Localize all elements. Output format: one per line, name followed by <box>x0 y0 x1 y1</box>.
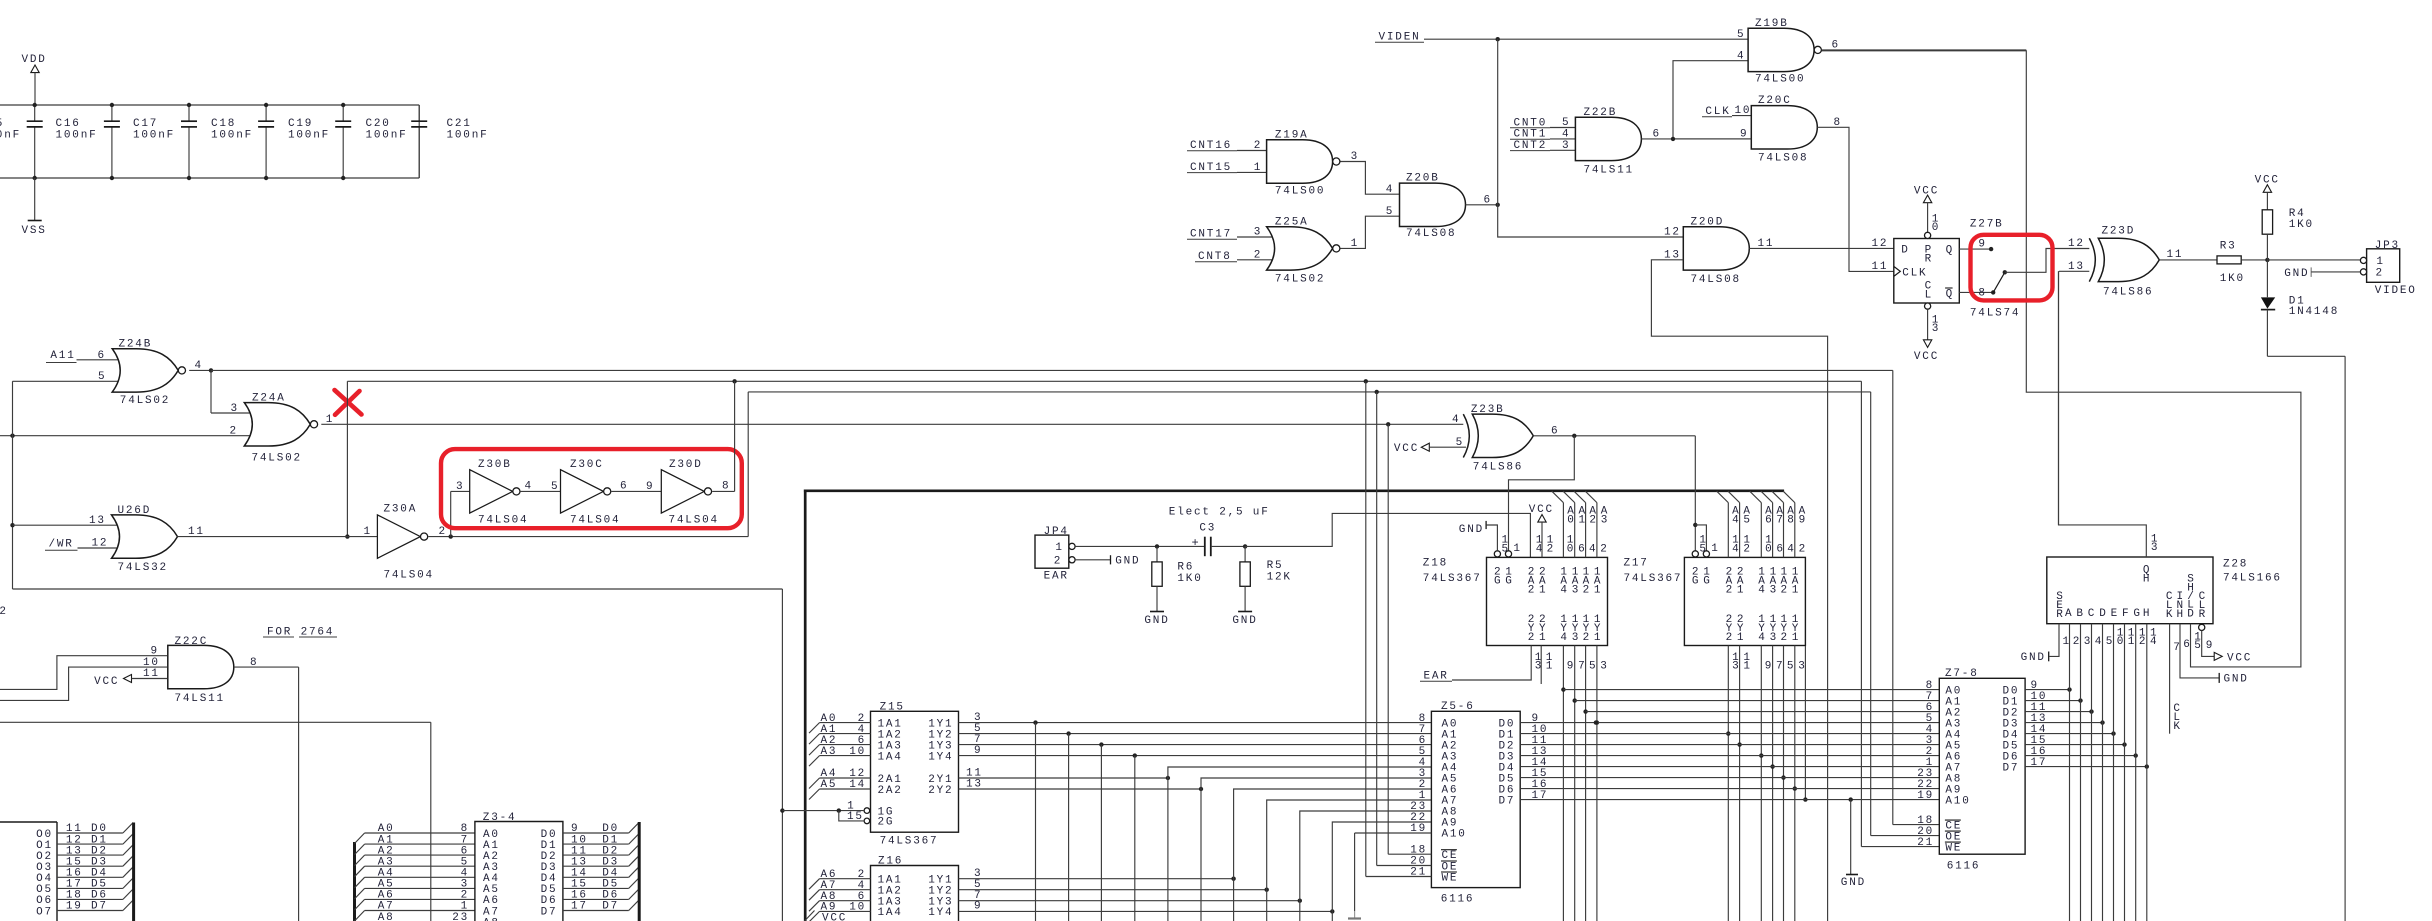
pin A7 left of Z3-4 <box>355 901 475 921</box>
svg-text:11: 11 <box>188 526 205 538</box>
svg-text:1: 1 <box>1539 632 1547 644</box>
svg-text:D: D <box>1901 244 1909 256</box>
wire A10 Z5-6 with ground <box>1355 833 1432 911</box>
svg-text:2: 2 <box>1600 543 1608 555</box>
bus entry A3 to Z18 <box>1585 491 1609 557</box>
pin A8 left of Z3-4 <box>355 912 475 921</box>
flip-flop Z27B 74LS74 <box>1894 219 2021 320</box>
svg-text:D7: D7 <box>1499 795 1516 807</box>
svg-text:1: 1 <box>1539 585 1547 597</box>
svg-text:Elect 2,5 uF: Elect 2,5 uF <box>1169 507 1270 519</box>
row A1 Z7-8 <box>1575 700 1940 702</box>
svg-text:3: 3 <box>1254 227 1262 239</box>
label A8 inside Z7-8 <box>1917 768 1962 786</box>
inverter Z30B 74LS04 <box>470 459 529 526</box>
svg-text:9: 9 <box>1765 661 1773 673</box>
label D3 inside Z5-6 <box>1499 751 1516 763</box>
svg-text:Z27B: Z27B <box>1970 219 2004 231</box>
svg-text:3: 3 <box>456 481 464 493</box>
svg-text:13: 13 <box>2068 261 2085 273</box>
label 1A2 1Y2 inside Z15 <box>878 729 954 741</box>
inverter Z30D 74LS04 <box>661 459 719 526</box>
svg-text:5: 5 <box>1456 437 1464 449</box>
wire Z20B output 6 <box>1466 194 1500 207</box>
svg-text:Z19B: Z19B <box>1755 18 1789 30</box>
label A1 inside Z7-8 <box>1926 691 1963 709</box>
resistor R4 1K0 <box>2262 208 2314 234</box>
pin O5 / D5 of ROM table <box>36 878 133 896</box>
pin labels 15 1 Z17 <box>1699 535 1719 556</box>
label D1 inside Z7-8 and output wire <box>2003 691 2083 709</box>
pin A5 left of Z3-4 <box>355 879 475 899</box>
label D2 inside Z7-8 and output wire <box>2003 702 2094 720</box>
svg-text:100nF: 100nF <box>0 130 21 142</box>
svg-text:2Y2: 2Y2 <box>928 785 953 797</box>
svg-text:A3: A3 <box>821 746 838 758</box>
label D7 inside Z5-6 <box>1499 795 1516 807</box>
pin O3 / D3 of ROM table <box>36 856 133 874</box>
svg-text:74LS86: 74LS86 <box>1473 462 1523 474</box>
svg-text:Z30C: Z30C <box>570 459 604 471</box>
svg-text:Z23B: Z23B <box>1471 404 1505 416</box>
svg-text:R: R <box>2199 609 2207 621</box>
net label CNT8 <box>1195 251 1237 263</box>
bus wire A1 down <box>1068 734 1070 921</box>
svg-text:1: 1 <box>1594 632 1602 644</box>
svg-text:15: 15 <box>847 811 864 823</box>
and-gate Z22C 74LS11 <box>168 636 234 705</box>
svg-text:1Y4: 1Y4 <box>928 751 953 763</box>
IC box Z7-8 6116 <box>1939 668 2025 873</box>
svg-text:3: 3 <box>1572 632 1580 644</box>
svg-text:9: 9 <box>646 481 654 493</box>
svg-text:9: 9 <box>1978 239 1986 251</box>
label A7 inside Z7-8 <box>1926 757 1963 775</box>
bus wire A4 down and jog to Z5-6 A4 <box>1168 767 1432 921</box>
svg-text:GND: GND <box>1115 555 1140 567</box>
wire Z23B.6 to Z17 G pins <box>1693 436 1706 551</box>
label A2 inside Z3-4 <box>483 851 500 863</box>
svg-text:L: L <box>1925 289 1933 301</box>
stub Z17 pin 13 down to A4 row <box>1726 646 1740 921</box>
svg-text:11: 11 <box>1758 238 1775 250</box>
svg-text:3: 3 <box>2151 542 2159 554</box>
wire CNT17 to Z25A pin 3 <box>1237 227 1277 239</box>
svg-text:K: K <box>2166 609 2174 621</box>
svg-text:3: 3 <box>2084 636 2092 648</box>
wire video node to JP3 pin 1 <box>2267 259 2360 261</box>
wire top rail <box>0 104 419 106</box>
ground R6 <box>1144 612 1169 628</box>
svg-text:Z20D: Z20D <box>1691 216 1725 228</box>
svg-text:14: 14 <box>849 779 866 791</box>
pin D7 right of Z3-4 <box>541 900 639 918</box>
wire Z20C output 8 to Z27B CLK <box>1817 117 1894 272</box>
wire net y392 horizontal <box>748 390 1871 394</box>
label A9 inside Z5-6 <box>1410 812 1458 830</box>
svg-text:2G: 2G <box>878 817 895 829</box>
wire R3 to video node <box>2241 259 2267 261</box>
svg-text:WE: WE <box>1945 842 1962 854</box>
IC box Z15 74LS367 <box>871 701 959 847</box>
svg-text:1: 1 <box>1351 238 1359 250</box>
wire Z30D output pin 8 up to y381 line <box>712 381 734 492</box>
svg-text:A8: A8 <box>483 917 500 921</box>
svg-text:4: 4 <box>1758 585 1766 597</box>
wire Z30A output pin 2 <box>428 526 748 539</box>
wire net y381 horizontal <box>347 379 1861 383</box>
svg-text:4: 4 <box>1536 543 1544 555</box>
wire long horizontal y722 <box>0 721 431 723</box>
or-gate U26D 74LS32 <box>112 505 178 574</box>
svg-text:8: 8 <box>250 657 258 669</box>
svg-text:5: 5 <box>1743 514 1751 526</box>
svg-text:1A4: 1A4 <box>878 751 903 763</box>
data row D2/A5 <box>1520 744 1939 746</box>
output 2Y2 Z15 (A5) <box>959 778 1204 791</box>
svg-text:JP3: JP3 <box>2375 240 2400 252</box>
wire Z28 pin 2 down <box>2070 624 2082 921</box>
svg-text:R5: R5 <box>1267 560 1284 572</box>
pin number 17 right of Z5-6 <box>1532 790 1549 802</box>
svg-text:VCC: VCC <box>822 913 847 921</box>
svg-text:4: 4 <box>1560 632 1568 644</box>
net label /WR <box>45 538 78 550</box>
pin number 9 right of Z5-6 <box>1532 713 1540 725</box>
pin bubbles JP3 <box>2360 257 2366 275</box>
svg-text:GND: GND <box>2224 674 2249 686</box>
label A0 inside Z5-6 <box>1419 713 1459 731</box>
pin O7 / D7 of ROM table <box>36 900 133 918</box>
label A5 inside Z5-6 <box>1419 768 1459 786</box>
svg-text:Z5-6: Z5-6 <box>1441 701 1475 713</box>
IC box Z17 74LS367 <box>1624 557 1806 645</box>
svg-text:4: 4 <box>1758 632 1766 644</box>
wire net Z24B.4 horizontal <box>211 369 1893 371</box>
wire Z28 pin 12 down <box>2136 624 2148 921</box>
wire Z22C pin 10 <box>0 657 167 701</box>
data row D6/A9 <box>1520 788 1939 790</box>
capacitor C15 (partial at edge) <box>0 118 21 142</box>
pin labels 12 13 Z23D <box>2068 238 2085 273</box>
label D4 inside Z7-8 and output wire <box>2003 724 2116 742</box>
power VCC to Z18 pin 12 <box>1529 504 1555 558</box>
power VCC to Z27B PRE pin 10 <box>1914 186 1940 239</box>
svg-text:Z30B: Z30B <box>478 459 512 471</box>
pin A3 left of Z3-4 <box>355 856 475 876</box>
svg-text:R3: R3 <box>2220 241 2237 253</box>
wire Z24B output pin 4 <box>189 360 211 372</box>
svg-text:6: 6 <box>1653 129 1661 141</box>
pin number 16 right of Z5-6 <box>1532 779 1549 791</box>
pin D5 right of Z3-4 <box>541 878 639 896</box>
nor-gate Z24B 74LS02 <box>112 339 185 407</box>
label D2 inside Z5-6 <box>1499 740 1516 752</box>
wire Z18 pin 3 down (row A3) <box>1595 646 1609 921</box>
svg-text:A5: A5 <box>821 779 838 791</box>
svg-text:Z30A: Z30A <box>384 504 418 516</box>
svg-text:1: 1 <box>1792 632 1800 644</box>
svg-text:9: 9 <box>1567 661 1575 673</box>
wire /WR to U26D pin 12 <box>78 538 122 550</box>
svg-text:Z19A: Z19A <box>1275 129 1309 141</box>
svg-text:74LS86: 74LS86 <box>2103 286 2153 298</box>
ground R5 <box>1232 612 1257 628</box>
label 1A4 1Y4 inside Z15 <box>878 751 954 763</box>
svg-text:VCC: VCC <box>1914 186 1939 198</box>
svg-text:100nF: 100nF <box>447 130 489 142</box>
label D3 inside Z7-8 and output wire <box>2003 713 2105 731</box>
svg-text:2: 2 <box>1781 632 1789 644</box>
power rail VDD arrow <box>22 54 47 105</box>
and-gate Z20C 74LS08 <box>1751 95 1817 165</box>
wire Z27B Q pin 9 <box>1959 239 1993 252</box>
svg-text:C18: C18 <box>211 118 236 130</box>
label 1A4 1Y4 inside Z16 <box>878 907 954 919</box>
svg-text:A10: A10 <box>1442 828 1467 840</box>
power VCC R4 <box>2255 175 2280 210</box>
wire Z24A pin 2 <box>0 426 254 438</box>
bubble Z15 1G <box>864 808 870 814</box>
pin D6 right of Z3-4 <box>541 889 639 907</box>
svg-text:C17: C17 <box>133 118 158 130</box>
svg-text:1K0: 1K0 <box>2220 273 2245 285</box>
svg-text:R: R <box>1925 253 1933 265</box>
svg-text:1: 1 <box>1546 661 1554 673</box>
bus entry A4 to Z17 <box>1717 491 1741 557</box>
red cross mark <box>335 390 362 415</box>
pin O2 / D2 of ROM table <box>36 845 133 863</box>
data bus vertical (Z3-4 right) <box>638 822 641 921</box>
wire Z23D output 11 to R3 <box>2159 249 2217 261</box>
label 2A1 2Y1 inside Z15 <box>878 774 954 786</box>
svg-text:10: 10 <box>849 746 866 758</box>
resistor R5 12K <box>1240 546 1292 611</box>
wire Z17 pin 3 down (row A9) <box>1793 646 1807 921</box>
svg-text:VDD: VDD <box>22 54 47 66</box>
wire Z24A output pin 1 long horizontal <box>321 414 1463 427</box>
label A9 inside Z7-8 <box>1917 779 1962 797</box>
svg-text:1: 1 <box>1737 585 1745 597</box>
label 1A1 1Y1 inside Z16 <box>878 875 954 887</box>
svg-text:8: 8 <box>1834 117 1842 129</box>
svg-text:74LS02: 74LS02 <box>120 395 170 407</box>
svg-text:VCC: VCC <box>1914 351 1939 363</box>
svg-text:0: 0 <box>1567 543 1575 555</box>
svg-text:U26D: U26D <box>118 505 152 517</box>
capacitor C19 <box>258 103 330 180</box>
svg-text:1A4: 1A4 <box>878 907 903 919</box>
net label CNT16 <box>1187 140 1237 152</box>
svg-text:74LS08: 74LS08 <box>1758 153 1808 165</box>
svg-text:100nF: 100nF <box>211 130 253 142</box>
svg-text:E: E <box>2111 608 2119 620</box>
svg-text:1: 1 <box>1594 585 1602 597</box>
svg-text:Z22C: Z22C <box>175 636 209 648</box>
svg-text:6: 6 <box>1832 40 1840 52</box>
svg-text:2: 2 <box>1054 556 1062 568</box>
wire Z18 pin 5 down (row A2) <box>1583 646 1597 921</box>
svg-text:G: G <box>1505 576 1513 588</box>
wire CLK to Z20C pin 10 <box>1732 105 1751 117</box>
pin D3 right of Z3-4 <box>541 856 639 874</box>
output 1Y2 Z15 (A1 row) <box>959 723 1432 736</box>
svg-text:Z23D: Z23D <box>2102 225 2136 237</box>
data row D4/A7 <box>1520 766 1939 768</box>
wire VIDEN net down to Z20D pin 12 <box>1498 39 1684 237</box>
nand-gate Z19B 74LS00 <box>1748 18 1821 86</box>
svg-text:2: 2 <box>2139 636 2147 648</box>
svg-text:2: 2 <box>1726 585 1734 597</box>
svg-text:D: D <box>2099 608 2107 620</box>
svg-text:+: + <box>1192 536 1201 550</box>
pin O4 / D4 of ROM table <box>36 867 133 885</box>
pin number 14 right of Z5-6 <box>1532 757 1549 769</box>
resistor R3 1K0 <box>2217 241 2245 286</box>
wire Z30C.6 to Z30D.9 <box>611 480 661 493</box>
svg-text:Z16: Z16 <box>878 855 903 867</box>
svg-text:1K0: 1K0 <box>2289 219 2314 231</box>
wire y589 horizontal <box>13 588 783 590</box>
label 1A3 1Y3 inside Z15 <box>878 740 954 752</box>
svg-text:2: 2 <box>1583 632 1591 644</box>
svg-text:12: 12 <box>0 606 8 618</box>
capacitor C16 <box>27 103 98 180</box>
svg-text:R: R <box>2056 609 2064 621</box>
svg-text:Z24A: Z24A <box>252 393 286 405</box>
switch lever <box>1993 270 2007 292</box>
pin bubbles JP4 <box>1069 543 1075 563</box>
label A3 inside Z3-4 <box>483 862 500 874</box>
node R5 top <box>1243 544 1247 548</box>
ground to Z18 pin 15 <box>1459 521 1498 551</box>
label D0 inside Z7-8 and output wire <box>2003 680 2072 698</box>
svg-text:VCC: VCC <box>1529 504 1554 516</box>
svg-text:2: 2 <box>1726 632 1734 644</box>
svg-text:9: 9 <box>974 901 982 913</box>
bus wire A0 down <box>1035 723 1037 921</box>
svg-text:C19: C19 <box>288 118 313 130</box>
diode D1 1N4148 <box>2261 260 2339 318</box>
svg-text:17: 17 <box>2031 757 2048 769</box>
wire Z23B output 6 <box>1533 425 1695 438</box>
svg-text:VCC: VCC <box>2227 652 2252 664</box>
address bus vertical (Z3-4 left) <box>353 842 356 921</box>
bus wire A5 down and jog to Z5-6 A5 <box>1201 778 1431 921</box>
wire net y392 down to Z7-8 OE <box>1871 392 1940 836</box>
wire switch to Z23D pin 12 <box>2005 249 2090 273</box>
wire to Z15 1G 2G <box>782 800 863 823</box>
label A6 inside Z3-4 <box>483 895 500 907</box>
label 1A2 1Y2 inside Z16 <box>878 886 954 898</box>
label D0 inside Z5-6 <box>1499 718 1516 730</box>
xor-gate Z23D 74LS86 <box>2089 225 2159 298</box>
net label VIDEN <box>1375 32 1424 44</box>
wire Z28 pin 11 down <box>2125 624 2137 921</box>
wire Z30A.2 up to y392 line <box>747 392 749 537</box>
svg-text:R6: R6 <box>1177 562 1194 574</box>
inverter Z30C 74LS04 <box>561 459 621 526</box>
svg-text:74LS367: 74LS367 <box>1624 573 1683 585</box>
svg-text:4: 4 <box>1737 50 1745 62</box>
nor-gate Z25A 74LS02 <box>1267 216 1340 285</box>
svg-text:3: 3 <box>1770 632 1778 644</box>
wire Z20D output 11 to Z27B D <box>1749 238 1893 250</box>
svg-text:G: G <box>2133 608 2141 620</box>
svg-text:3: 3 <box>1535 661 1543 673</box>
stub Z18 pin 11 <box>1541 646 1554 685</box>
data row D7/A10 <box>1520 797 1939 801</box>
svg-text:2A2: 2A2 <box>878 785 903 797</box>
label A5 inside Z3-4 <box>483 884 500 896</box>
svg-text:74LS04: 74LS04 <box>384 570 434 582</box>
wire net y356 horizontal <box>2267 355 2345 357</box>
pin A2 left of Z3-4 <box>355 845 475 865</box>
svg-text:12: 12 <box>92 538 109 550</box>
wire vertical x347 from y381 line <box>345 381 349 539</box>
pin number 13 right of Z5-6 <box>1532 746 1549 758</box>
bus entry A7 to Z17 <box>1761 491 1785 557</box>
svg-text:4: 4 <box>1560 585 1568 597</box>
wire CNT16 to Z19A pin 2 <box>1237 140 1267 152</box>
bus entry A2 to Z18 <box>1574 491 1598 557</box>
svg-text:5: 5 <box>551 481 559 493</box>
label D1 inside Z5-6 <box>1499 729 1516 741</box>
svg-text:1: 1 <box>2376 256 2384 268</box>
svg-text:GND: GND <box>2284 268 2309 280</box>
svg-text:5: 5 <box>1737 29 1745 41</box>
svg-text:17: 17 <box>571 901 588 913</box>
output 1Y1 Z15 (A0 row) <box>959 712 1432 725</box>
label A3 inside Z7-8 <box>1926 713 1963 731</box>
wire Z19A output 3 to Z20B pin 4 <box>1341 151 1400 196</box>
bubbles Z17 G pins <box>1692 551 1709 557</box>
IC box ROM left (partial) <box>0 822 57 921</box>
wire Z19B pin 4 from Z22B node <box>1673 50 1748 139</box>
svg-text:D7: D7 <box>602 901 619 913</box>
input A3 to Z15 <box>809 746 871 766</box>
capacitor C20 <box>335 103 407 180</box>
svg-text:C20: C20 <box>366 118 391 130</box>
svg-text:23: 23 <box>452 912 469 921</box>
svg-text:1: 1 <box>1254 162 1262 174</box>
wire EAR to Z18 pin 13 <box>1420 646 1543 683</box>
svg-text:6: 6 <box>1484 194 1492 206</box>
wire R4 to video node <box>2266 234 2268 260</box>
stub Z28 CLK pin 7 <box>2170 624 2182 734</box>
pin label 11 Z27B <box>1872 261 1889 273</box>
svg-text:6116: 6116 <box>1947 861 1981 873</box>
input A9 to Z16 <box>809 902 871 921</box>
stub Z17 pin 11 down to A5 row <box>1737 646 1751 921</box>
svg-text:4: 4 <box>2150 636 2158 648</box>
svg-text:74LS04: 74LS04 <box>669 515 719 527</box>
svg-text:74LS02: 74LS02 <box>1275 273 1325 285</box>
labels inside Z28 <box>2056 564 2207 621</box>
wire Z30B.4 to Z30C.5 <box>521 480 561 493</box>
svg-text:D7: D7 <box>2003 762 2020 774</box>
connector JP4 EAR <box>1035 526 1069 583</box>
svg-text:O7: O7 <box>36 906 53 918</box>
pin D1 right of Z3-4 <box>541 834 639 852</box>
ground tick JP4.2 <box>1075 555 1140 567</box>
svg-text:A: A <box>2065 608 2073 620</box>
label A0 inside Z7-8 <box>1926 680 1963 698</box>
bubbles Z18 G pins <box>1494 551 1511 557</box>
svg-text:Z7-8: Z7-8 <box>1945 668 1979 680</box>
wire Z24B.4 to Z24A pin 3 <box>211 370 254 415</box>
label D5 inside Z7-8 and output wire <box>2003 735 2127 753</box>
